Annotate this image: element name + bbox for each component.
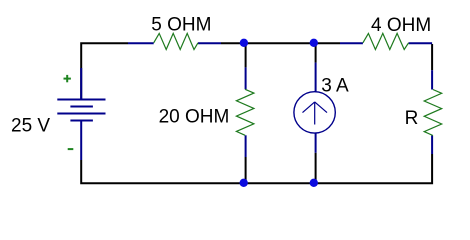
resistor 4 OHM zigzag [363,33,409,49]
svg-text:3 A: 3 A [321,75,349,96]
resistor 20 OHM zigzag [236,89,254,135]
wire: node B to 4-ohm left lead [316,42,340,44]
resistor 5 OHM leads [128,42,221,44]
wire: 5-ohm right lead to node A [221,42,246,44]
node D (bottom, source branch) [310,179,318,187]
current source I1 circle [294,92,335,133]
svg-text:5 OHM: 5 OHM [151,14,211,35]
resistor 4 OHM leads [340,42,432,44]
current source I1 arrow [303,102,328,125]
wire: node B down to current source top lead [315,43,317,62]
wire: current source bottom lead down to node D [315,153,317,184]
svg-text:25 V: 25 V [11,115,50,136]
resistor R leads [431,70,433,154]
battery plus mark [64,75,71,82]
wire: node A to node B [246,42,316,44]
battery minus mark [68,148,74,150]
wire right-bottom: R bottom lead to corner to node D [316,154,433,183]
resistor 5 OHM zigzag [154,33,198,49]
resistor R zigzag [424,90,442,136]
resistor 20 OHM leads [245,67,247,157]
wire bottom-left: node C to battery bottom [81,160,245,183]
svg-text:4 OHM: 4 OHM [371,15,431,36]
battery V1 plates [57,100,105,121]
current source I1 leads [315,63,317,153]
battery V1 leads [80,68,82,160]
node B (top, source branch) [310,39,318,47]
svg-text:R: R [405,108,419,129]
node A (top, 20-ohm branch) [240,39,248,47]
wire: node A down to 20-ohm top lead [245,43,247,67]
node C (bottom, 20-ohm branch) [240,179,248,187]
wire right: top corner down to R top lead [431,44,433,70]
svg-text:20 OHM: 20 OHM [159,107,230,128]
wire top-left: battery top lead corner to 5-ohm [81,43,128,99]
wire bottom: node D to node C [246,182,316,184]
wire: 20-ohm bottom lead down to node C [245,157,247,183]
